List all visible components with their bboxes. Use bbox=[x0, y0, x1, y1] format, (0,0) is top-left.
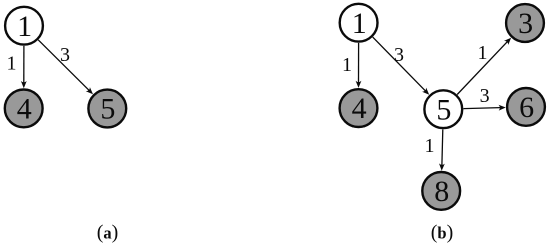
node 5 (a) bbox=[88, 90, 126, 128]
svg-text:1: 1 bbox=[17, 10, 32, 43]
svg-text:(b): (b) bbox=[431, 222, 454, 244]
svg-text:(a): (a) bbox=[97, 222, 119, 244]
wire edge 1->4 (a) bbox=[21, 46, 27, 88]
svg-text:3: 3 bbox=[394, 44, 404, 66]
node 5 (b) bbox=[424, 90, 462, 128]
wire edge 5->8 (b) bbox=[439, 129, 445, 170]
node 8 (b) bbox=[422, 172, 460, 210]
wire edge 1->5 (b) bbox=[373, 37, 430, 95]
svg-text:1: 1 bbox=[478, 42, 488, 64]
svg-text:1: 1 bbox=[7, 52, 17, 74]
svg-text:1: 1 bbox=[352, 7, 367, 40]
svg-text:8: 8 bbox=[434, 175, 449, 208]
node 1 (a) bbox=[5, 7, 43, 45]
node 4 (b) bbox=[340, 89, 378, 127]
svg-text:1: 1 bbox=[342, 54, 352, 76]
wire edge 5->6 (b) bbox=[464, 105, 506, 111]
svg-text:6: 6 bbox=[519, 91, 534, 124]
node 4 (a) bbox=[5, 90, 43, 128]
svg-text:3: 3 bbox=[60, 44, 70, 66]
svg-text:3: 3 bbox=[518, 7, 533, 40]
wire edge 5->3 (b) bbox=[457, 38, 511, 95]
svg-text:4: 4 bbox=[17, 93, 32, 126]
node 3 (b) bbox=[506, 4, 544, 42]
svg-text:4: 4 bbox=[352, 92, 367, 125]
node 6 (b) bbox=[507, 88, 545, 126]
svg-text:5: 5 bbox=[436, 93, 451, 126]
node 1 (b) bbox=[340, 4, 378, 42]
wire edge 1->4 (b) bbox=[356, 43, 362, 88]
svg-text:3: 3 bbox=[480, 85, 490, 107]
wire edge 1->5 (a) bbox=[38, 40, 93, 94]
svg-text:1: 1 bbox=[425, 135, 435, 157]
svg-text:5: 5 bbox=[100, 93, 115, 126]
